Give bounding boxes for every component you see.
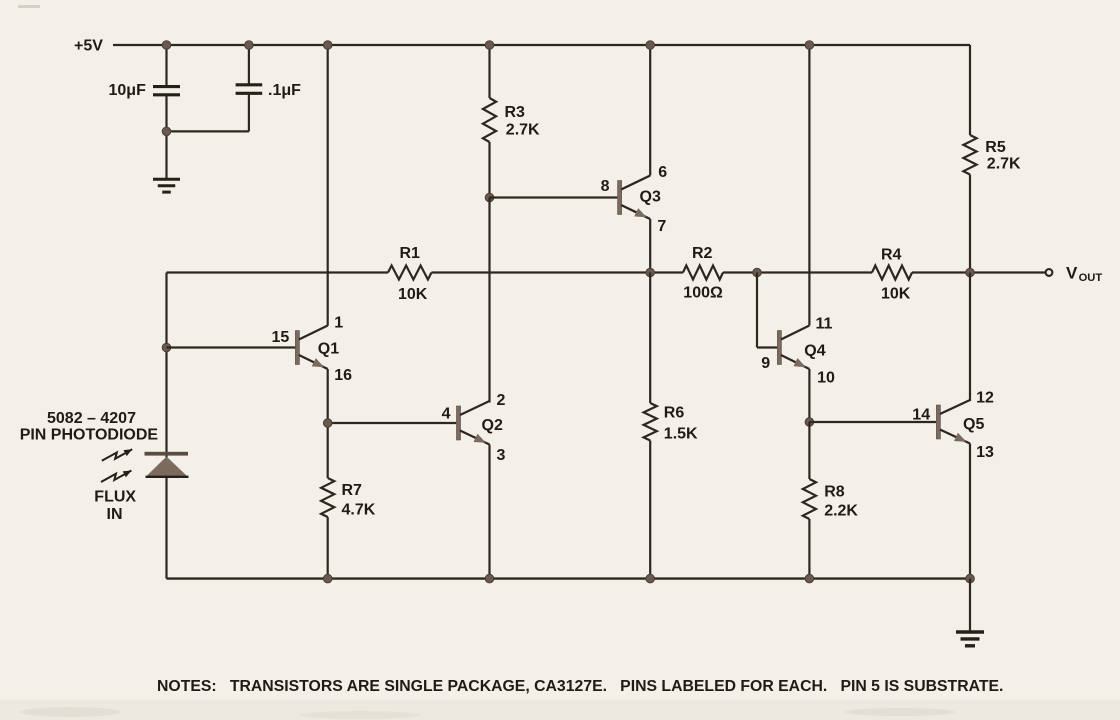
svg-text:2.7K: 2.7K: [987, 156, 1021, 173]
svg-text:R8: R8: [824, 483, 845, 500]
svg-text:10K: 10K: [881, 286, 911, 303]
svg-text:4.7K: 4.7K: [342, 501, 376, 518]
svg-text:12: 12: [976, 390, 994, 407]
svg-text:1: 1: [334, 315, 343, 332]
svg-text:9: 9: [761, 355, 770, 372]
svg-text:16: 16: [334, 367, 352, 384]
svg-text:6: 6: [658, 164, 667, 181]
svg-text:1.5K: 1.5K: [664, 426, 698, 443]
svg-text:4: 4: [442, 405, 451, 422]
svg-text:2.7K: 2.7K: [506, 121, 540, 138]
svg-text:5082 – 4207: 5082 – 4207: [47, 410, 136, 427]
svg-text:15: 15: [272, 329, 290, 346]
svg-text:R1: R1: [400, 245, 421, 262]
svg-text:IN: IN: [107, 506, 123, 523]
svg-text:+5V: +5V: [74, 37, 103, 54]
svg-text:FLUX: FLUX: [94, 489, 136, 506]
svg-text:3: 3: [497, 447, 506, 464]
svg-text:13: 13: [976, 444, 994, 461]
svg-text:11: 11: [816, 315, 833, 332]
svg-text:R4: R4: [881, 247, 902, 264]
svg-text:10: 10: [817, 370, 835, 387]
svg-text:Q2: Q2: [482, 417, 503, 434]
svg-text:R7: R7: [342, 482, 363, 499]
svg-text:V: V: [1066, 263, 1078, 282]
svg-text:Q1: Q1: [318, 340, 339, 357]
svg-text:R6: R6: [664, 405, 685, 422]
svg-text:2.2K: 2.2K: [824, 502, 858, 519]
svg-text:10K: 10K: [398, 286, 428, 303]
svg-text:14: 14: [912, 406, 930, 423]
svg-text:R5: R5: [985, 139, 1006, 156]
svg-text:R3: R3: [505, 104, 526, 121]
svg-text:100Ω: 100Ω: [683, 284, 723, 301]
svg-text:8: 8: [601, 178, 610, 195]
svg-text:NOTES: TRANSISTORS ARE SINGL: NOTES: TRANSISTORS ARE SINGLE PACKAGE, C…: [157, 678, 1003, 695]
svg-text:Q3: Q3: [640, 189, 661, 206]
svg-text:Q4: Q4: [804, 342, 825, 359]
svg-text:OUT: OUT: [1079, 272, 1103, 284]
svg-text:R2: R2: [692, 245, 713, 262]
svg-text:2: 2: [497, 392, 506, 409]
svg-text:PIN PHOTODIODE: PIN PHOTODIODE: [20, 427, 159, 444]
svg-text:Q5: Q5: [963, 416, 984, 433]
svg-text:10μF: 10μF: [109, 82, 147, 99]
svg-text:7: 7: [657, 218, 666, 235]
svg-text:.1μF: .1μF: [268, 82, 301, 99]
